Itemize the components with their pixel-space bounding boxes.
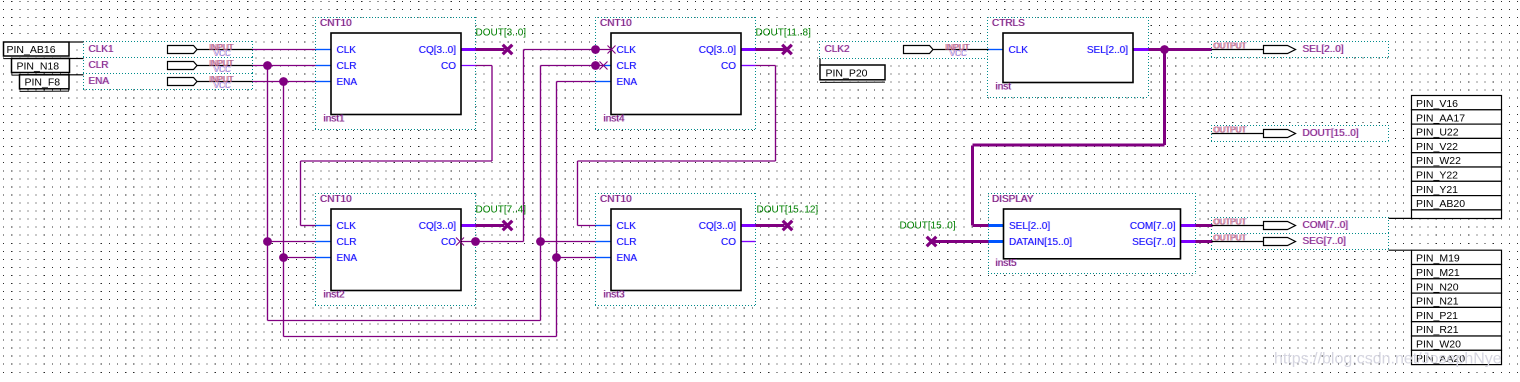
svg-text:PIN_N18: PIN_N18	[17, 60, 60, 72]
bus DOUT[3..0]	[476, 48, 505, 51]
junction SEL bus	[1160, 45, 1169, 54]
svg-text:CQ[3..0]: CQ[3..0]	[699, 221, 736, 232]
svg-text:CLK: CLK	[617, 45, 637, 56]
svg-text:DISPLAY: DISPLAY	[992, 194, 1034, 205]
svg-text:CLK: CLK	[1009, 45, 1029, 56]
block CNT10 inst1	[319, 18, 461, 125]
bus endpoint DOUT[11..8]	[782, 45, 792, 55]
wire inst1.CO to inst2.CLK	[301, 66, 493, 226]
pin stubs CTRLS	[988, 49, 1149, 51]
selection outline inst3	[595, 193, 756, 306]
svg-text:PIN_V22: PIN_V22	[1416, 141, 1458, 153]
pin box PIN_P20	[820, 59, 885, 83]
wire CLK1 net	[253, 49, 316, 51]
svg-text:CQ[3..0]: CQ[3..0]	[699, 45, 736, 56]
svg-text:VCC: VCC	[214, 49, 231, 58]
svg-text:CTRLS: CTRLS	[992, 18, 1025, 29]
bus COM to output port	[1196, 224, 1213, 227]
input port ENA	[88, 75, 253, 90]
svg-text:ENA: ENA	[89, 76, 110, 87]
svg-text:PIN_N20: PIN_N20	[1416, 281, 1459, 293]
svg-text:CO: CO	[721, 237, 736, 248]
svg-text:DOUT[15..0]: DOUT[15..0]	[900, 221, 956, 232]
svg-text:inst2: inst2	[324, 290, 346, 301]
svg-text:CLK: CLK	[617, 221, 637, 232]
svg-text:https://blog.csdn.net/JosephNy: https://blog.csdn.net/JosephNye	[1274, 351, 1502, 368]
svg-text:inst1: inst1	[324, 114, 346, 125]
svg-text:SEG[7..0]: SEG[7..0]	[1303, 236, 1347, 247]
net label DOUT[15..12]	[757, 205, 819, 216]
svg-text:OUTPUT: OUTPUT	[1214, 218, 1247, 227]
pin stubs inst2	[316, 226, 476, 258]
svg-text:DOUT[11..8]: DOUT[11..8]	[756, 28, 812, 39]
wire inst2.CO to inst4.CLK	[459, 50, 612, 242]
svg-text:PIN_P21: PIN_P21	[1416, 310, 1458, 322]
svg-text:CQ[3..0]: CQ[3..0]	[419, 221, 456, 232]
endpoint marker inst4.CLR	[600, 62, 608, 70]
svg-text:VCC: VCC	[214, 81, 231, 90]
junction CLR at input	[263, 61, 272, 70]
svg-text:CLK2: CLK2	[825, 44, 850, 55]
svg-text:CLR: CLR	[337, 61, 357, 72]
svg-text:PIN_U22: PIN_U22	[1416, 127, 1459, 139]
svg-text:VCC: VCC	[950, 49, 967, 58]
selection outline inst1	[315, 17, 476, 130]
svg-text:OUTPUT: OUTPUT	[1214, 234, 1247, 243]
output port COM[7..0]	[1212, 218, 1350, 232]
svg-text:inst4: inst4	[604, 114, 626, 125]
svg-text:ENA: ENA	[337, 253, 358, 264]
svg-text:PIN_AB16: PIN_AB16	[7, 44, 56, 56]
svg-text:SEG[7..0]: SEG[7..0]	[1132, 237, 1176, 248]
svg-text:PIN_M21: PIN_M21	[1416, 267, 1460, 279]
svg-text:CQ[3..0]: CQ[3..0]	[419, 45, 456, 56]
svg-text:PIN_R21: PIN_R21	[1416, 324, 1459, 336]
svg-text:PIN_M19: PIN_M19	[1416, 253, 1460, 265]
svg-text:CNT10: CNT10	[320, 18, 352, 29]
junction CLR to inst2	[263, 237, 272, 246]
bus endpoint DOUT[3..0]	[503, 45, 513, 55]
svg-text:PIN_N21: PIN_N21	[1416, 296, 1459, 308]
bus SEL net	[973, 50, 1212, 226]
svg-text:CNT10: CNT10	[600, 194, 632, 205]
junction inst2.CO wire	[471, 237, 480, 246]
svg-text:SEL[2..0]: SEL[2..0]	[1009, 221, 1050, 232]
pin stubs inst3	[596, 226, 756, 258]
svg-text:ENA: ENA	[617, 253, 638, 264]
input port CLK2	[824, 43, 989, 58]
junction ENA at input	[279, 77, 288, 86]
endpoint marker inst4.CLK	[608, 46, 616, 54]
selection outline input port CLK2	[819, 41, 988, 59]
block CNT10 inst4	[599, 18, 741, 125]
wire ENA net	[253, 82, 596, 337]
svg-text:PIN_F8: PIN_F8	[25, 77, 61, 89]
bus SEG to output port	[1196, 240, 1213, 243]
junction inst4.CLK	[591, 45, 600, 54]
svg-text:PIN_W20: PIN_W20	[1416, 339, 1461, 351]
svg-text:CLR: CLR	[617, 237, 637, 248]
net label DOUT[7..4]	[476, 205, 527, 216]
junction ENA to inst3	[552, 253, 561, 262]
block DISPLAY inst5	[991, 194, 1180, 269]
svg-text:PIN_AA17: PIN_AA17	[1416, 112, 1465, 124]
wire CLR net	[253, 66, 604, 321]
input port CLK1	[88, 43, 253, 58]
svg-text:CO: CO	[721, 61, 736, 72]
svg-text:inst: inst	[996, 82, 1012, 93]
svg-text:DOUT[15..0]: DOUT[15..0]	[1303, 128, 1359, 139]
bus DOUT[7..4]	[476, 224, 505, 227]
svg-text:inst5: inst5	[996, 258, 1018, 269]
net label DOUT[3..0]	[476, 28, 527, 39]
svg-text:CLK: CLK	[337, 221, 357, 232]
pin box PIN_N18	[12, 59, 84, 76]
svg-text:CLR: CLR	[617, 61, 637, 72]
svg-text:CNT10: CNT10	[600, 18, 632, 29]
pin list COM pins	[1389, 96, 1502, 219]
net label DOUT[15..0]	[900, 221, 956, 232]
svg-text:OUTPUT: OUTPUT	[1214, 126, 1247, 135]
output port DOUT[15..0]	[1212, 126, 1360, 140]
svg-text:SEL[2..0]: SEL[2..0]	[1303, 44, 1344, 55]
svg-text:PIN_V16: PIN_V16	[1416, 98, 1458, 110]
output port SEG[7..0]	[1212, 234, 1347, 248]
svg-text:PIN_P20: PIN_P20	[826, 68, 868, 80]
bus DOUT[11..8]	[756, 48, 785, 51]
svg-text:VCC: VCC	[214, 65, 231, 74]
symbol background fills	[84, 18, 1389, 306]
selection outline input ports CLK1 CLR ENA	[83, 41, 253, 90]
svg-text:ENA: ENA	[337, 77, 358, 88]
bus endpoint DOUT[15..12]	[783, 221, 793, 231]
output port SEL[2..0]	[1212, 42, 1345, 56]
svg-text:DOUT[7..4]: DOUT[7..4]	[476, 205, 527, 216]
svg-text:DATAIN[15..0]: DATAIN[15..0]	[1009, 237, 1072, 248]
svg-text:COM[7..0]: COM[7..0]	[1130, 221, 1176, 232]
endpoint marker inst2.CO	[456, 238, 464, 246]
svg-text:DOUT[15..12]: DOUT[15..12]	[757, 205, 819, 216]
bus DOUT[15..0] to DATAIN	[932, 240, 989, 243]
svg-text:inst3: inst3	[604, 290, 626, 301]
svg-text:CLK: CLK	[337, 45, 357, 56]
pin stubs inst1	[316, 50, 476, 82]
pin stubs inst4	[596, 50, 756, 82]
junction inst4.CLR	[591, 61, 600, 70]
svg-text:CLR: CLR	[89, 60, 109, 71]
selection outline DISPLAY	[988, 193, 1196, 274]
wire inst4.CO to inst3.CLK	[578, 66, 776, 226]
svg-text:COM[7..0]: COM[7..0]	[1303, 220, 1349, 231]
selection outline CTRLS	[987, 17, 1149, 98]
net label DOUT[11..8]	[756, 28, 812, 39]
svg-text:CNT10: CNT10	[320, 194, 352, 205]
svg-text:CO: CO	[441, 237, 456, 248]
block CNT10 inst3	[599, 194, 741, 301]
pin list SEG pins	[1389, 250, 1502, 365]
svg-text:DOUT[3..0]: DOUT[3..0]	[476, 28, 527, 39]
svg-text:OUTPUT: OUTPUT	[1214, 42, 1247, 51]
input port CLR	[88, 59, 253, 74]
pin stubs DISPLAY	[989, 226, 1196, 242]
svg-text:CLK1: CLK1	[89, 44, 114, 55]
bus endpoint DOUT[7..4]	[503, 221, 513, 231]
svg-text:PIN_Y21: PIN_Y21	[1416, 184, 1458, 196]
block CNT10 inst2	[319, 194, 461, 301]
selection outline inst2	[315, 193, 476, 306]
pin box PIN_AB16	[4, 42, 84, 59]
svg-text:CLR: CLR	[337, 237, 357, 248]
junction ENA to inst2	[279, 253, 288, 262]
block CTRLS inst	[991, 18, 1133, 93]
pin box PIN_F8	[20, 75, 84, 92]
watermark	[1274, 351, 1502, 368]
junction CLR to inst3	[536, 237, 545, 246]
bus DOUT[15..12]	[756, 224, 785, 227]
selection outline output ports	[1211, 41, 1389, 250]
svg-text:PIN_AB20: PIN_AB20	[1416, 198, 1465, 210]
selection outline inst4	[595, 17, 756, 130]
svg-text:SEL[2..0]: SEL[2..0]	[1087, 45, 1128, 56]
svg-text:PIN_Y22: PIN_Y22	[1416, 170, 1458, 182]
svg-text:ENA: ENA	[617, 77, 638, 88]
bus endpoint DOUT[15..0]	[927, 237, 937, 247]
svg-text:CO: CO	[441, 61, 456, 72]
svg-text:PIN_W22: PIN_W22	[1416, 155, 1461, 167]
